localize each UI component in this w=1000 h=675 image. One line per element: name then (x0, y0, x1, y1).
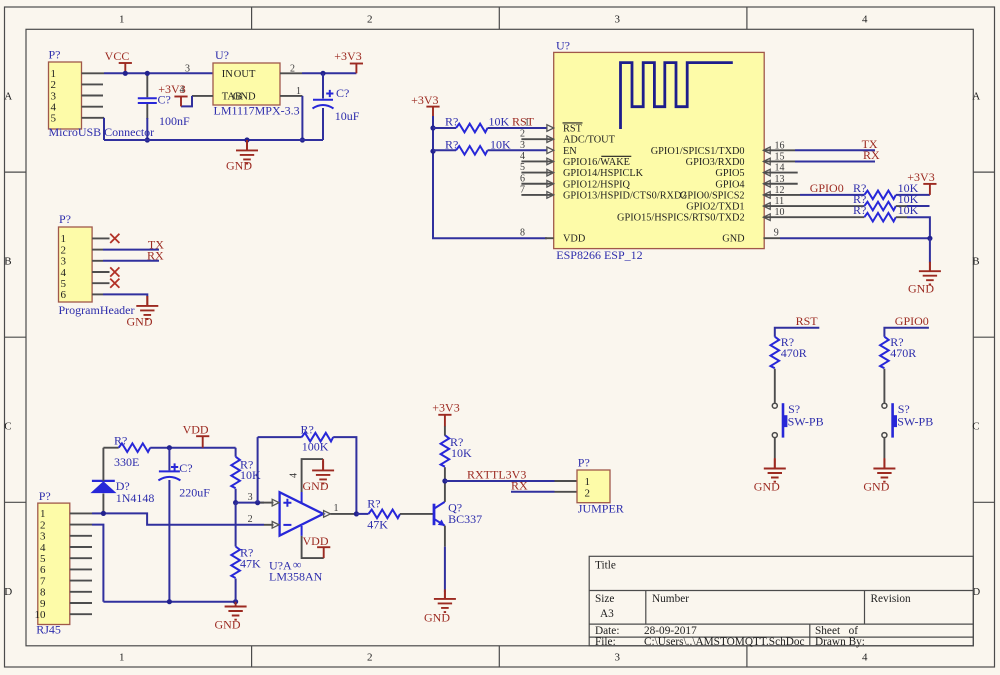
svg-text:U?: U? (215, 48, 229, 62)
svg-text:R?: R? (445, 138, 458, 152)
RJ45 pin 7 stub (70, 580, 92, 582)
svg-text:4: 4 (520, 151, 525, 162)
wire switch to GND (GPIO0) (883, 438, 885, 459)
svg-text:7: 7 (40, 575, 46, 587)
ground symbol at switch (RST) (764, 458, 786, 482)
svg-text:6: 6 (40, 564, 46, 576)
svg-text:Sheet of: Sheet of (815, 625, 858, 637)
svg-text:330E: 330E (114, 455, 139, 469)
svg-text:8: 8 (520, 228, 525, 239)
title block frame (589, 556, 973, 646)
transistor Q1 emitter diagonal (435, 519, 445, 526)
svg-text:A: A (972, 91, 980, 103)
svg-text:LM1117MPX-3.3: LM1117MPX-3.3 (214, 104, 300, 118)
junction pullup RST (430, 125, 435, 130)
svg-text:3: 3 (248, 492, 253, 503)
junction collector (442, 478, 447, 483)
svg-text:GPIO16/WAKE: GPIO16/WAKE (563, 157, 630, 168)
svg-text:2: 2 (367, 13, 373, 25)
svg-text:Number: Number (652, 593, 689, 605)
op-amp pin2 lead (264, 524, 274, 526)
resistor R9 100K (302, 433, 334, 442)
svg-text:Size: Size (595, 593, 614, 605)
no-connect X pin 4 (110, 267, 119, 276)
wire resistor to switch (RST) (774, 369, 776, 403)
svg-text:C?: C? (179, 461, 192, 475)
svg-text:GPIO13/HSPID/CTS0/RXD2: GPIO13/HSPID/CTS0/RXD2 (563, 190, 687, 201)
svg-text:470R: 470R (781, 346, 807, 360)
RJ45 pin 6 stub (70, 568, 92, 570)
resistor R10 47K (369, 510, 401, 519)
svg-text:D: D (4, 586, 12, 598)
zone column ticks bottom (252, 646, 747, 667)
no-connect X pin 5 (110, 279, 119, 288)
resistor R 470R (RST) (771, 337, 780, 369)
ESP8266 pin 5 stub (521, 172, 553, 174)
svg-text:SW-PB: SW-PB (788, 414, 824, 428)
svg-text:GPIO0: GPIO0 (810, 181, 844, 195)
ESP8266 pin 6 glyph (547, 180, 554, 187)
ESP RST pin glyph (547, 125, 554, 132)
svg-text:R?: R? (301, 422, 314, 436)
svg-text:C?: C? (336, 86, 349, 100)
wire TX from pin 2 (103, 249, 159, 251)
svg-text:2: 2 (367, 652, 373, 664)
svg-text:5: 5 (51, 113, 57, 125)
svg-text:5: 5 (61, 278, 67, 290)
IC U? ESP8266 box (554, 52, 765, 248)
capacitor C2 10uF bottom wire (322, 108, 324, 140)
diode D1 anode wire (102, 494, 104, 514)
junction GND rail at symbol (244, 137, 249, 142)
svg-text:Title: Title (595, 560, 616, 572)
svg-text:6: 6 (61, 289, 67, 301)
svg-text:3: 3 (40, 531, 46, 543)
svg-text:GPIO12/HSPIQ: GPIO12/HSPIQ (563, 179, 631, 190)
ProgramHeader pin 2 stub (92, 249, 103, 251)
RJ45 pin 3 stub (70, 535, 92, 537)
wire bottom GND rail (103, 601, 235, 603)
junction op-amp output (354, 511, 359, 516)
resistor R5 lead right (896, 216, 907, 218)
svg-text:1: 1 (40, 508, 46, 520)
wire R5 to GND (907, 217, 930, 238)
resistor R11 10K vertical (441, 435, 450, 467)
svg-text:GND: GND (722, 234, 745, 245)
svg-text:10K: 10K (489, 114, 510, 128)
svg-text:RJ45: RJ45 (36, 623, 61, 637)
svg-text:3: 3 (51, 90, 57, 102)
wire R11 top (444, 426, 446, 436)
svg-text:2: 2 (248, 514, 253, 525)
resistor R1 10K (RST pullup) (456, 124, 488, 133)
RJ45 pin 10 stub (70, 613, 92, 615)
svg-text:Revision: Revision (871, 593, 912, 605)
wire RJ45 pin2 (92, 525, 103, 602)
svg-text:10K: 10K (898, 203, 919, 217)
svg-text:ProgramHeader: ProgramHeader (59, 303, 135, 317)
capacitor C2 10uF top wire (322, 73, 324, 98)
op-amp pin4 blue segment (301, 492, 303, 503)
op-amp pin8 blue segment (301, 526, 303, 536)
wire EN resistor to pin (488, 149, 548, 151)
no-connect X pin 1 (110, 234, 119, 243)
wire regulator GND down to rail (301, 96, 303, 140)
ESP8266 pin 4 stub (521, 160, 553, 162)
svg-text:10K: 10K (451, 446, 472, 460)
svg-text:3: 3 (520, 140, 525, 151)
svg-text:47K: 47K (240, 556, 261, 570)
wire TAB to +3V3 (181, 96, 192, 107)
wire +3V3 down to VDD (433, 116, 547, 238)
op-amp pin2 glyph (272, 522, 279, 529)
ESP VDD pin lead (545, 237, 554, 239)
svg-text:VDD: VDD (563, 234, 586, 245)
junction at 100nF top (145, 71, 150, 76)
wire R3 to +3V3 (896, 194, 930, 196)
transistor emitter wire (444, 526, 446, 547)
svg-text:P?: P? (39, 489, 51, 503)
svg-text:R?: R? (367, 496, 380, 510)
resistor R6 330E (119, 443, 151, 452)
wire VDD rail right (150, 447, 235, 449)
junction regulator GND at rail (300, 137, 305, 142)
svg-text:2: 2 (61, 244, 67, 256)
wire OUT to +3V3 (302, 72, 356, 74)
capacitor C1 wire to rail (146, 118, 148, 140)
resistor R3 10K (GPIO0) (864, 191, 896, 200)
junction RJ45 pin1 (101, 511, 106, 516)
svg-text:GND: GND (908, 282, 934, 296)
svg-text:P?: P? (49, 48, 61, 62)
power symbol +3V3 at collector (438, 415, 451, 427)
svg-text:RST: RST (796, 314, 819, 328)
wire GPIO0 row (800, 194, 864, 196)
ESP8266 pin 14 glyph (763, 169, 770, 176)
svg-text:1N4148: 1N4148 (116, 491, 155, 505)
capacitor C3 220uF plates (158, 471, 180, 480)
ESP8266 pin 5 glyph (547, 169, 554, 176)
wire GND rail (104, 139, 323, 141)
capacitor C3 220uF bottom wire (168, 480, 170, 602)
svg-text:3: 3 (615, 652, 621, 664)
op-amp output glyph (324, 511, 331, 518)
svg-text:3: 3 (615, 13, 621, 25)
svg-text:LM358AN: LM358AN (269, 570, 323, 584)
svg-text:File:: File: (595, 636, 616, 648)
svg-text:GPIO4: GPIO4 (715, 179, 744, 190)
svg-text:RX: RX (863, 148, 880, 162)
power symbol VCC (119, 63, 132, 73)
ESP8266 pin 16 glyph (763, 147, 770, 154)
power symbol +3V3 at regulator output (350, 64, 363, 74)
RJ45 pin 8 stub (70, 591, 92, 593)
svg-text:JUMPER: JUMPER (578, 502, 624, 516)
ground symbol at switch (GPIO0) (873, 458, 895, 482)
ESP8266 pin 12 glyph (763, 192, 770, 199)
MicroUSB pin 3 stub (82, 95, 104, 97)
transistor Q1 base bar (433, 504, 436, 526)
wire pin6 to GND (103, 294, 147, 296)
svg-text:RST: RST (563, 124, 583, 135)
junction at VCC stem (123, 71, 128, 76)
capacitor C3 plus sign (171, 463, 178, 470)
svg-text:8: 8 (40, 587, 46, 599)
wire GND pin 9 (780, 237, 930, 239)
wire RJ45 pin1 to junction (92, 512, 103, 514)
wire divider to opamp plus (236, 502, 264, 504)
svg-text:ADC/TOUT: ADC/TOUT (563, 135, 616, 146)
svg-text:4: 4 (862, 13, 868, 25)
wire resistor to switch (GPIO0) (883, 369, 885, 403)
svg-text:GPIO15/HSPICS/RTS0/TXD2: GPIO15/HSPICS/RTS0/TXD2 (617, 213, 745, 224)
op-amp plus marker (283, 499, 291, 507)
wire feedback top left (258, 436, 302, 438)
ProgramHeader pin 6 stub (92, 293, 103, 295)
wire feedback left vertical (257, 437, 259, 503)
wire MicroUSB pin5 down (103, 118, 105, 140)
svg-text:5: 5 (520, 162, 525, 173)
svg-text:C:\Users\..\AMSTOMQTT.SchDoc: C:\Users\..\AMSTOMQTT.SchDoc (644, 636, 805, 648)
svg-text:GPIO2/TXD1: GPIO2/TXD1 (686, 202, 744, 213)
wire switch to GND (RST) (774, 438, 776, 459)
svg-text:RX: RX (147, 248, 164, 262)
connector P? JUMPER box (577, 470, 610, 503)
ESP8266 pin 15 glyph (763, 158, 770, 165)
wire RX from pin 3 (103, 260, 159, 262)
resistor R5 10K (GPIO15) (864, 213, 896, 222)
ProgramHeader pin 4 stub (92, 271, 109, 273)
junction ESP GND (927, 236, 932, 241)
RJ45 pin 9 stub (70, 602, 92, 604)
svg-text:R?: R? (114, 433, 127, 447)
svg-text:1: 1 (119, 652, 125, 664)
svg-text:28-09-2017: 28-09-2017 (644, 625, 697, 637)
svg-text:GND: GND (424, 610, 450, 624)
svg-text:A3: A3 (600, 608, 614, 620)
diode D1 1N4148 (92, 481, 116, 493)
wire feedback top right (333, 437, 356, 514)
svg-text:B: B (972, 256, 979, 268)
wire TX (795, 149, 875, 151)
capacitor C1 100nF plates (138, 98, 157, 103)
svg-text:+3V3: +3V3 (411, 93, 438, 107)
ground symbol ProgramHeader (136, 296, 158, 319)
svg-text:RX: RX (511, 478, 528, 492)
svg-text:5: 5 (40, 553, 46, 565)
wire RST switch top (775, 328, 820, 337)
ESP8266 pin 4 glyph (547, 158, 554, 165)
op-amp pin8 lead (302, 536, 324, 558)
svg-text:1: 1 (585, 476, 591, 488)
op-amp output lead (330, 513, 356, 515)
jumper pin2 lead (555, 491, 578, 493)
junction bottom rail at C3 (167, 599, 172, 604)
svg-text:6: 6 (520, 173, 525, 184)
wire ESP GND down (929, 238, 931, 262)
svg-text:3: 3 (61, 256, 67, 268)
svg-text:VDD: VDD (303, 534, 329, 548)
ESP8266 antenna meander (621, 63, 733, 129)
svg-text:1: 1 (334, 503, 339, 514)
op-amp U2A LM358 triangle (280, 492, 324, 535)
svg-text:GND: GND (226, 159, 252, 173)
svg-text:GND: GND (303, 479, 329, 493)
zone row ticks left (5, 172, 27, 502)
junction pullup EN (430, 149, 435, 154)
ESP pin 16 lead (763, 149, 795, 151)
op-amp minus marker (283, 524, 291, 526)
svg-text:4: 4 (40, 542, 46, 554)
svg-text:R?: R? (445, 114, 458, 128)
svg-text:IN: IN (222, 69, 233, 80)
wire to RST resistor (433, 127, 456, 129)
MicroUSB pin 4 stub (82, 106, 104, 108)
wire R8 to rail (235, 579, 237, 602)
ESP pin 13 stub (763, 183, 797, 185)
resistor R8 47K vertical (231, 547, 240, 579)
svg-text:GPIO14/HSPICLK: GPIO14/HSPICLK (563, 168, 644, 179)
svg-text:GPIO0: GPIO0 (895, 314, 929, 328)
svg-text:BC337: BC337 (448, 512, 482, 526)
svg-text:220uF: 220uF (179, 486, 210, 500)
svg-text:10uF: 10uF (335, 109, 360, 123)
junction divider (233, 500, 238, 505)
svg-text:EN: EN (563, 146, 577, 157)
svg-text:2: 2 (585, 488, 591, 500)
transistor collector wire (444, 481, 446, 502)
wire R10 to base (400, 513, 433, 515)
RJ45 pin 2 stub (70, 524, 92, 526)
op-amp pin4 lead (302, 459, 324, 492)
power symbol +3V3 at GPIO0 pullup (923, 184, 936, 195)
MicroUSB pin 5 stub (82, 117, 105, 119)
op-amp pin3 lead (258, 502, 274, 504)
wire VCC rail (pin1 to regulator IN) (104, 72, 213, 74)
ESP pin 14 stub (763, 172, 797, 174)
RJ45 pin 1 stub (70, 512, 92, 514)
svg-text:1: 1 (61, 233, 67, 245)
svg-text:OUT: OUT (234, 69, 256, 80)
svg-text:1: 1 (119, 13, 125, 25)
power symbol VDD at op-amp (317, 547, 330, 558)
RJ45 pin 5 stub (70, 557, 92, 559)
wire RST resistor to pin (488, 127, 548, 129)
svg-text:GPIO1/SPICS1/TXD0: GPIO1/SPICS1/TXD0 (651, 146, 745, 157)
svg-text:SW-PB: SW-PB (897, 414, 933, 428)
resistor R2 10K (EN pullup) (456, 146, 488, 155)
ESP8266 pin 11 glyph (763, 203, 770, 210)
ESP pin 11 lead (763, 205, 864, 207)
power symbol +3V3 at TAB (174, 97, 187, 107)
switch S? SW-PB (GPIO0) (882, 403, 897, 437)
ESP8266 pin 2 glyph (547, 136, 554, 143)
svg-text:R?: R? (853, 203, 866, 217)
regulator GND pin stub (280, 95, 302, 97)
capacitor C1 100nF pin bottom (146, 104, 148, 119)
svg-text:MicroUSB Connector: MicroUSB Connector (49, 125, 155, 139)
ProgramHeader pin 3 stub (92, 260, 103, 262)
svg-text:7: 7 (520, 184, 525, 195)
zone row ticks right (973, 172, 994, 502)
ground symbol main rail (225, 602, 247, 620)
svg-text:GND: GND (863, 479, 889, 493)
wire RX (795, 160, 875, 162)
svg-text:2: 2 (520, 129, 525, 140)
wire RXTTL3V3 (445, 480, 555, 482)
ESP pin 10 lead (763, 216, 864, 218)
svg-text:P?: P? (578, 456, 590, 470)
svg-text:GPIO3/RXD0: GPIO3/RXD0 (686, 157, 745, 168)
svg-text:GND: GND (215, 618, 241, 632)
jumper pin1 lead (555, 480, 578, 482)
regulator U1 LM1117 box (213, 63, 280, 105)
svg-text:GPIO0/SPICS2: GPIO0/SPICS2 (680, 190, 745, 201)
ground symbol ESP (919, 262, 941, 285)
RJ45 pin 4 stub (70, 546, 92, 548)
ESP EN pin glyph (547, 147, 554, 154)
wire to EN resistor (433, 149, 456, 151)
ESP8266 pin 7 stub (521, 194, 553, 196)
ESP8266 pin 7 glyph (547, 192, 554, 199)
resistor R 470R (GPIO0) (880, 337, 889, 369)
svg-text:A: A (4, 91, 12, 103)
junction at 10uF top (320, 71, 325, 76)
ground symbol transistor (434, 589, 456, 612)
transistor Q1 collector diagonal (435, 502, 445, 509)
svg-text:P?: P? (59, 212, 71, 226)
junction bottom rail at GND (233, 599, 238, 604)
power symbol VDD at rail (196, 436, 209, 448)
svg-text:2: 2 (40, 519, 46, 531)
ESP8266 RST pin overbar (563, 122, 583, 124)
svg-text:ESP8266 ESP_12: ESP8266 ESP_12 (556, 248, 642, 262)
svg-text:B: B (4, 256, 11, 268)
wire rail corner down to R7 (235, 448, 237, 457)
MicroUSB pin 1 stub (82, 72, 105, 74)
svg-text:10: 10 (35, 609, 47, 621)
svg-text:C: C (972, 421, 979, 433)
resistor R10 47K lead left (356, 513, 368, 515)
resistor R7 10K vertical (231, 457, 240, 489)
capacitor C1 100nF pin top (146, 73, 148, 97)
svg-text:C: C (4, 421, 11, 433)
junction 100nF bottom rail (145, 137, 150, 142)
svg-text:Date:: Date: (595, 625, 619, 637)
svg-text:VCC: VCC (105, 49, 130, 63)
wire VDD rail left (103, 447, 118, 449)
svg-text:4: 4 (289, 473, 300, 478)
svg-text:U?: U? (556, 39, 570, 53)
svg-text:9: 9 (774, 228, 779, 239)
ESP8266 pin 2 stub (521, 138, 553, 140)
svg-text:470R: 470R (890, 346, 916, 360)
svg-text:9: 9 (40, 598, 46, 610)
connector P? ProgramHeader box (59, 227, 93, 302)
resistor R4 lead right (896, 205, 907, 207)
power symbol +3V3 left of ESP (426, 107, 439, 117)
regulator OUT pin stub (280, 72, 302, 74)
svg-text:GND: GND (754, 479, 780, 493)
svg-text:GND: GND (233, 92, 256, 103)
wire collector to R11 (444, 467, 446, 481)
svg-text:47K: 47K (367, 517, 388, 531)
capacitor C3 220uF top wire (168, 448, 170, 471)
ProgramHeader pin 1 stub (92, 237, 109, 239)
diode D1 cathode wire (102, 448, 104, 481)
ESP8266 WAKE pin overbar (601, 155, 631, 157)
wire R7 to junction (235, 489, 237, 503)
